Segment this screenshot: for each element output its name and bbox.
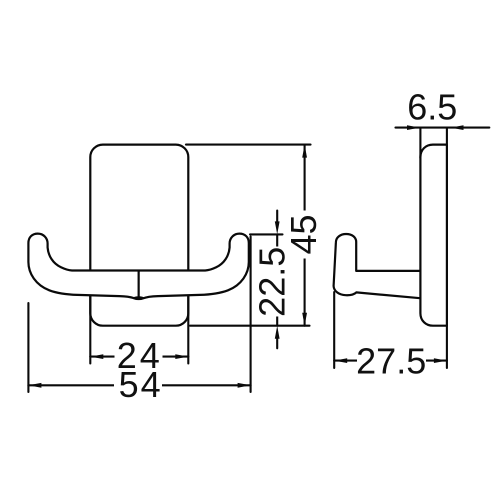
arrow 45 top: [302, 145, 307, 158]
dim line 22.5 top overshoot: [276, 211, 278, 224]
dim line 22.5: [276, 234, 278, 325]
arrow 22.5 bottom: [275, 326, 280, 339]
dim ext line 24 left: [89, 297, 91, 364]
text knockout 45: [289, 211, 318, 259]
arrow 6.5 right: [451, 125, 464, 130]
text knockout 54: [114, 370, 162, 399]
text knockout 24: [115, 341, 163, 370]
dim line 24: [90, 356, 188, 358]
dim ext line 6.5 right: [446, 128, 448, 144]
arrow 27.5 right: [434, 358, 447, 363]
dim ext line 27.5 left: [333, 292, 335, 368]
dim line 54: [28, 384, 250, 386]
arrow 54 right: [238, 383, 251, 388]
dim line 27.5: [334, 360, 447, 362]
dim line 22.5 bottom overshoot: [276, 337, 278, 349]
front hook center seam: [138, 272, 140, 298]
dim ext line plate bottom right: [190, 325, 310, 327]
dim ext line plate top right: [186, 144, 311, 146]
dim ext line 54 left: [27, 303, 29, 392]
dim ext line 24 right: [187, 297, 189, 364]
front hook body: [28, 234, 248, 299]
text knockout 27.5: [357, 346, 426, 375]
arrow 45 bottom: [302, 313, 307, 326]
svg-text:54: 54: [119, 364, 163, 405]
arrow 22.5 top: [275, 221, 280, 234]
arrow 54 left: [28, 383, 41, 388]
dim ext line 27.5 right: [446, 326, 448, 368]
svg-text:22.5: 22.5: [252, 247, 293, 317]
arrow 6.5 left: [407, 125, 420, 130]
side view back plate: [420, 145, 447, 326]
dim line 45: [304, 145, 306, 326]
dim line 6.5: [396, 127, 490, 129]
front view back plate: [90, 145, 188, 326]
dim ext line 54 right: [250, 237, 252, 393]
svg-text:27.5: 27.5: [356, 340, 426, 381]
arrow 27.5 left: [334, 358, 347, 363]
svg-text:6.5: 6.5: [407, 87, 457, 128]
arrow 24 left: [90, 354, 103, 359]
arrow 24 right: [175, 354, 188, 359]
front hook notch blob: [133, 296, 144, 299]
text knockout 22.5: [258, 247, 287, 317]
dim ext line 6.5 left: [419, 128, 421, 158]
dim ext line hook tip right: [250, 233, 283, 235]
side view hook arm and prong: [334, 234, 422, 298]
